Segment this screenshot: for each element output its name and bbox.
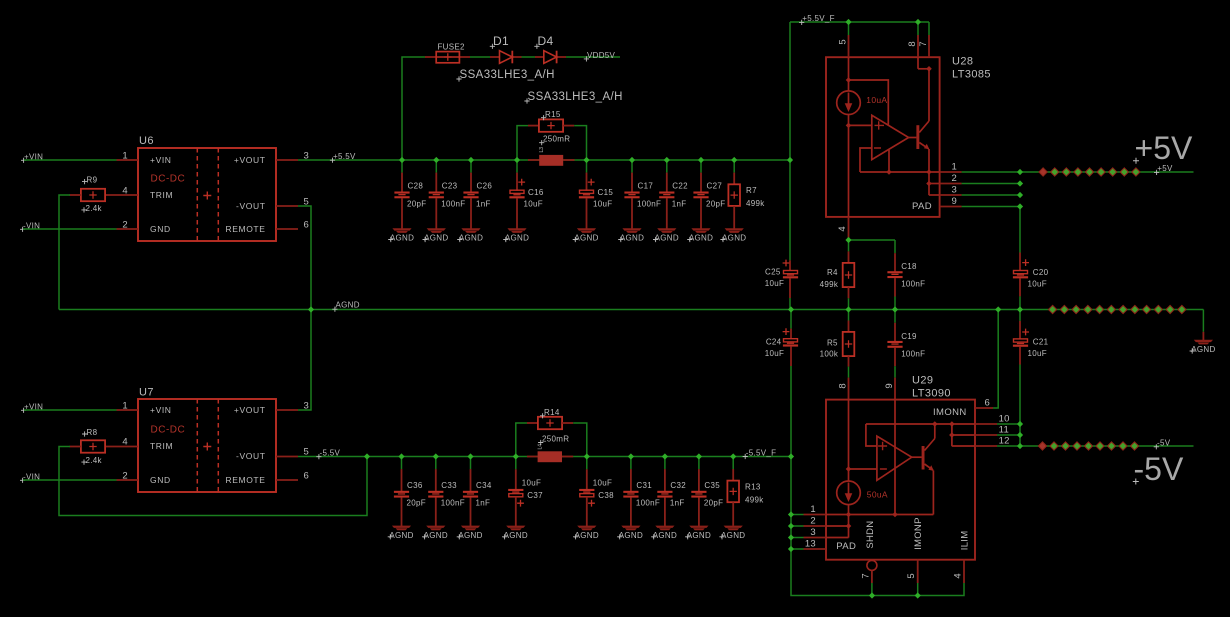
svg-text:AGND: AGND (336, 301, 360, 310)
svg-text:+5.5V_F: +5.5V_F (802, 14, 835, 23)
svg-text:R9: R9 (87, 176, 98, 185)
svg-text:+5.5V: +5.5V (333, 152, 356, 161)
svg-text:PAD: PAD (912, 201, 932, 212)
U28 current source 10uA (848, 57, 850, 91)
junction dots +5V/-5V bus x=1020 (1017, 169, 1023, 175)
svg-text:100nF: 100nF (901, 349, 925, 358)
svg-text:100nF: 100nF (636, 499, 660, 508)
svg-text:C25: C25 (765, 267, 781, 276)
svg-text:C19: C19 (901, 332, 917, 341)
vias -5V output row (1038, 442, 1046, 450)
svg-text:C17: C17 (638, 182, 654, 191)
svg-text:1: 1 (952, 162, 958, 173)
svg-text:C26: C26 (477, 182, 493, 191)
svg-text:13: 13 (805, 539, 816, 550)
wire pin 12 to bus (997, 445, 1020, 447)
svg-text:SHDN: SHDN (865, 521, 876, 549)
svg-text:GND: GND (150, 224, 171, 234)
U29 + input loop to IMONN line (866, 424, 877, 446)
svg-text:VDD5V: VDD5V (587, 51, 616, 60)
U29 pin 9 internal line (894, 400, 896, 515)
capacitor C28 (401, 160, 403, 173)
svg-text:SSA33LHE3_A/H: SSA33LHE3_A/H (460, 69, 555, 81)
U28 internal pins 2/3 chain (928, 172, 930, 195)
svg-text:GND: GND (150, 475, 171, 485)
svg-text:12: 12 (999, 436, 1010, 447)
svg-text:4: 4 (122, 186, 128, 197)
U28 pin 3 stub (940, 194, 962, 196)
ferrite bead L3 (528, 159, 539, 161)
wire AGND tail to symbol (1202, 310, 1204, 332)
svg-text:100nF: 100nF (441, 499, 465, 508)
svg-text:499k: 499k (745, 495, 764, 504)
svg-text:REMOTE: REMOTE (226, 475, 266, 485)
wire +5V output (1020, 171, 1194, 173)
svg-text:C32: C32 (670, 481, 686, 490)
wire R15 left loop (517, 126, 528, 160)
svg-text:AGND: AGND (1191, 345, 1215, 354)
wire +5.5V_F riser x=790 (789, 22, 791, 160)
svg-text:2: 2 (122, 220, 128, 231)
wire -VIN to U6 pin 2 (23, 228, 117, 230)
svg-text:AGND: AGND (655, 234, 679, 243)
U29 current source 50uA (837, 481, 861, 505)
svg-text:6: 6 (985, 398, 991, 409)
resistor R5 (848, 310, 850, 321)
wire +VIN to U6 pin 1 (24, 159, 117, 161)
svg-text:AGND: AGND (722, 234, 746, 243)
ground AGND (right) (1194, 340, 1213, 342)
capacitor C33 (435, 457, 437, 470)
svg-text:1: 1 (122, 151, 128, 162)
U28 pin 8 (917, 22, 919, 35)
U28 pins 8/7 internal tie (917, 57, 919, 69)
svg-text:DC-DC: DC-DC (151, 425, 186, 436)
svg-text:U7: U7 (139, 387, 154, 399)
svg-text:AGND: AGND (620, 234, 644, 243)
capacitor C26 (470, 160, 472, 173)
resistor R15 (539, 119, 563, 131)
svg-text:9: 9 (884, 383, 895, 388)
svg-text:50uA: 50uA (867, 489, 888, 499)
svg-text:AGND: AGND (390, 234, 414, 243)
svg-text:10: 10 (999, 414, 1010, 425)
U28 pin 5 (IN) (848, 22, 850, 35)
svg-text:PAD: PAD (836, 541, 856, 552)
capacitor C24 (790, 310, 792, 329)
svg-text:C34: C34 (476, 481, 492, 490)
svg-text:+VIN: +VIN (150, 405, 172, 415)
resistor R7 (733, 160, 735, 173)
wire R8 TRIM loop (U7) (59, 447, 367, 516)
svg-text:D4: D4 (538, 34, 554, 48)
svg-text:DC-DC: DC-DC (151, 174, 186, 185)
svg-text:AGND: AGND (689, 234, 713, 243)
capacitor C31 (630, 457, 632, 470)
svg-text:R4: R4 (827, 268, 838, 277)
svg-text:L3: L3 (539, 147, 545, 153)
wire +VIN to U7 pin 1 (24, 409, 117, 411)
wire U29 pin 6 to AGND bus (993, 310, 998, 409)
svg-text:U29: U29 (912, 375, 933, 387)
svg-text:3: 3 (952, 185, 958, 196)
wire riser to fuse (402, 57, 425, 160)
capacitor C36 (401, 457, 403, 470)
U28 feedback loop to - input (860, 148, 872, 172)
U6 pin 1 +VIN stub (117, 159, 139, 161)
svg-text:250mR: 250mR (542, 434, 569, 443)
svg-text:C15: C15 (598, 188, 614, 197)
capacitor C22 (666, 160, 668, 173)
diode D1 (500, 51, 513, 64)
wire pin 10 to bus (997, 423, 1020, 425)
svg-text:1: 1 (122, 401, 128, 412)
wire -5V output (1020, 445, 1194, 447)
U7 pin 2 GND stub (117, 479, 139, 481)
svg-text:10uF: 10uF (593, 479, 612, 488)
svg-text:5: 5 (906, 573, 917, 578)
svg-text:C38: C38 (598, 491, 614, 500)
wire U28 pin 1 to +5V bus (962, 171, 1020, 173)
U28 pin 4 stub (848, 217, 850, 239)
svg-text:11: 11 (999, 425, 1009, 436)
svg-text:20pF: 20pF (704, 499, 723, 508)
svg-text:+VOUT: +VOUT (234, 405, 266, 415)
capacitor C18 (894, 253, 896, 271)
svg-text:D1: D1 (493, 34, 509, 48)
capacitor C23 (435, 160, 437, 173)
svg-text:C24: C24 (766, 337, 782, 346)
U6 pin 4 TRIM stub (105, 194, 138, 196)
svg-text:+VIN: +VIN (150, 155, 172, 165)
transistor Q internal U28 (916, 125, 919, 149)
U28 pin 7 (928, 22, 930, 35)
svg-text:C23: C23 (442, 182, 458, 191)
op-amp regulator U28 LT3085 body (826, 57, 940, 217)
svg-text:AGND: AGND (721, 531, 745, 540)
svg-text:5: 5 (838, 39, 849, 44)
U29 internal bottom wire (826, 514, 933, 516)
U29 pin 7 SHDN inverted stub (867, 560, 877, 570)
U29 op-amp - input wire (849, 468, 877, 470)
capacitor C17 (631, 160, 633, 173)
wire R9 to AGND bus (TRIM loop U6) (59, 195, 70, 310)
svg-text:6: 6 (304, 220, 310, 231)
resistor R8 (81, 440, 105, 452)
U28 internal junction (emitter/output) (926, 169, 932, 175)
resistor R4 (848, 240, 850, 251)
wire U28 pin 3 to bus (962, 194, 1020, 196)
svg-text:10uF: 10uF (524, 199, 543, 208)
svg-text:8: 8 (838, 383, 849, 388)
U28 internal node to pin 4 (848, 115, 850, 217)
svg-text:2.4k: 2.4k (86, 456, 103, 465)
capacitor C34 (470, 457, 472, 470)
resistor R13 (732, 457, 734, 470)
U29 pin 2 stub (791, 525, 804, 527)
svg-text:AGND: AGND (505, 234, 529, 243)
capacitor C35 (698, 457, 700, 470)
U7 pin 5 -VOUT stub (276, 456, 298, 458)
svg-text:-5.5V: -5.5V (320, 449, 341, 458)
svg-text:1nF: 1nF (672, 199, 687, 208)
U28 op-amp supply line (849, 80, 889, 125)
vias +5V output row (1039, 168, 1047, 176)
svg-text:10uF: 10uF (765, 349, 784, 358)
svg-text:7: 7 (861, 573, 872, 578)
svg-text:20pF: 20pF (706, 199, 725, 208)
svg-text:L4: L4 (538, 444, 544, 450)
svg-text:TRIM: TRIM (150, 190, 173, 200)
svg-text:LT3085: LT3085 (952, 69, 991, 81)
svg-text:C35: C35 (704, 481, 720, 490)
U29 pin 4 ILIM stub (963, 560, 965, 583)
wire U28 pin 2 to bus (962, 183, 1020, 185)
svg-text:R15: R15 (545, 110, 561, 119)
junction U28 pin 4 node (845, 237, 851, 243)
U29 pin 8 internal line (848, 400, 850, 481)
ferrite bead L4 (527, 456, 538, 458)
svg-text:AGND: AGND (687, 531, 711, 540)
resistor R14 (538, 417, 562, 429)
wire R15 right loop (563, 125, 574, 127)
U29 pin 12 stub (975, 445, 997, 447)
wire pin 11 to bus (997, 434, 1020, 436)
svg-text:R13: R13 (745, 482, 761, 491)
svg-text:IMONN: IMONN (933, 407, 967, 418)
capacitor C20 (1019, 207, 1021, 253)
svg-text:C21: C21 (1033, 337, 1049, 346)
svg-text:SSA33LHE3_A/H: SSA33LHE3_A/H (528, 91, 623, 103)
svg-text:2.4k: 2.4k (86, 204, 103, 213)
U29 pin 6 IMONN stub (975, 407, 993, 409)
U6 DC-DC converter body (138, 148, 276, 241)
wire -5.5V rail (298, 456, 791, 458)
svg-text:7: 7 (918, 41, 929, 46)
U29 pin 3 stub (791, 537, 804, 539)
resistor R9 (81, 189, 105, 201)
svg-text:1nF: 1nF (670, 499, 685, 508)
U29 internal junction (- input node) (846, 466, 852, 472)
svg-text:-VOUT: -VOUT (236, 201, 265, 211)
svg-text:IMONP: IMONP (913, 517, 924, 550)
svg-text:AGND: AGND (389, 531, 413, 540)
wire AGND bus (59, 309, 1203, 311)
svg-text:10uF: 10uF (1028, 280, 1047, 289)
svg-text:3: 3 (810, 527, 816, 538)
U28 internal junction (+ input node) (846, 123, 852, 129)
svg-text:C20: C20 (1033, 268, 1049, 277)
svg-text:10uF: 10uF (522, 479, 541, 488)
svg-text:100nF: 100nF (901, 280, 925, 289)
op-amp regulator U29 LT3090 body (826, 400, 975, 560)
svg-text:100k: 100k (820, 349, 839, 358)
svg-text:C37: C37 (527, 491, 543, 500)
svg-text:100nF: 100nF (441, 199, 465, 208)
U29 pin 8 stub (top) (848, 378, 850, 400)
capacitor C15 (586, 160, 588, 173)
capacitor C32 (664, 457, 666, 470)
svg-text:1nF: 1nF (476, 199, 491, 208)
wire U28 pin 9 to bus (962, 206, 1020, 208)
svg-text:4: 4 (837, 226, 848, 231)
svg-text:+5V: +5V (1135, 130, 1193, 166)
svg-text:2: 2 (952, 173, 958, 184)
U7 pin 4 TRIM stub (105, 446, 138, 448)
svg-text:AGND: AGND (458, 531, 482, 540)
capacitor C21 (1019, 310, 1021, 321)
vias AGND bus row (1049, 305, 1057, 313)
U28 op-amp output tap (888, 150, 890, 172)
op-amp U29 triangle (877, 436, 912, 480)
svg-text:9: 9 (952, 196, 958, 207)
svg-text:20pF: 20pF (407, 499, 426, 508)
svg-text:C27: C27 (707, 182, 723, 191)
U6 pin 3 +VOUT stub (276, 159, 298, 161)
U29 internal junction (collector tap) (932, 421, 938, 427)
U7 pin 1 +VIN stub (117, 409, 139, 411)
svg-text:250mR: 250mR (543, 135, 570, 144)
U28 op-amp + input wire (849, 124, 872, 126)
svg-text:20pF: 20pF (407, 199, 426, 208)
svg-text:2: 2 (122, 471, 128, 482)
capacitor C16 (516, 160, 518, 173)
U29 pin 9 stub (top) (894, 378, 896, 400)
wire U28 pin4 to R4/C18 (849, 239, 896, 241)
svg-text:499k: 499k (746, 199, 765, 208)
capacitor C38 (586, 457, 588, 470)
wire U29 bottom bus (791, 457, 964, 596)
svg-text:R8: R8 (87, 428, 98, 437)
svg-text:AGND: AGND (504, 531, 528, 540)
wire U6 pin5 to AGND bus (298, 206, 311, 310)
U6 pin 6 REMOTE stub (276, 228, 298, 230)
U28 internal junction (V+ tap) (846, 77, 852, 83)
fuse FUSE2 (436, 52, 459, 63)
svg-text:1nF: 1nF (476, 499, 491, 508)
wire R14 left loop (516, 423, 527, 457)
svg-text:U6: U6 (139, 135, 154, 147)
svg-text:-5V: -5V (1134, 451, 1184, 487)
U29 internal IMONN/output line (866, 423, 975, 425)
svg-text:4: 4 (953, 573, 964, 578)
wire +5.5V rail (298, 159, 790, 161)
U6 pin 5 -VOUT stub (276, 205, 298, 207)
capacitor C37 (515, 457, 517, 470)
transistor Q internal U29 (922, 446, 925, 470)
diode D4 (544, 51, 557, 64)
svg-text:8: 8 (907, 41, 918, 46)
capacitor C19 (894, 310, 896, 323)
U29 pin 13 PAD stub (791, 548, 804, 550)
junction dots +5.5V_F top wire (845, 19, 851, 25)
svg-text:C33: C33 (441, 481, 457, 490)
wire U7 pin3 to AGND bus (298, 310, 311, 411)
U6 pin 2 GND stub (117, 228, 139, 230)
svg-text:C28: C28 (408, 182, 424, 191)
svg-text:C18: C18 (901, 262, 917, 271)
svg-text:AGND: AGND (574, 234, 598, 243)
svg-text:AGND: AGND (424, 531, 448, 540)
U28 pin 2 stub (940, 183, 962, 185)
junction dots U29 bottom bus (869, 592, 875, 598)
svg-text:-5V: -5V (1157, 439, 1171, 448)
U28 internal output wire (860, 171, 940, 173)
svg-text:+VOUT: +VOUT (234, 155, 266, 165)
svg-text:C16: C16 (528, 188, 544, 197)
svg-text:6: 6 (304, 471, 310, 482)
wire +5.5V_F top (790, 21, 929, 23)
junction dots left bus x=791 (788, 453, 794, 459)
svg-text:-VOUT: -VOUT (236, 451, 265, 461)
svg-text:FUSE2: FUSE2 (438, 42, 466, 51)
op-amp U28 triangle (872, 115, 909, 159)
svg-text:499k: 499k (820, 280, 839, 289)
svg-text:10uA: 10uA (866, 95, 887, 105)
svg-text:R14: R14 (544, 408, 560, 417)
svg-text:C31: C31 (636, 481, 652, 490)
svg-text:ILIM: ILIM (959, 531, 970, 551)
svg-text:10uF: 10uF (765, 279, 784, 288)
svg-text:C36: C36 (407, 481, 423, 490)
svg-text:AGND: AGND (619, 531, 643, 540)
U28 pin 9 PAD stub (940, 206, 962, 208)
U29 internal pins 11/12 chain (949, 421, 955, 427)
wire fuse-diode segments (425, 56, 436, 58)
U7 pin 6 REMOTE stub (276, 479, 298, 481)
svg-text:-5.5V_F: -5.5V_F (746, 448, 777, 457)
svg-text:AGND: AGND (575, 531, 599, 540)
svg-text:TRIM: TRIM (150, 441, 173, 451)
U29 pin 11 stub (975, 434, 997, 436)
svg-text:4: 4 (122, 437, 128, 448)
svg-text:C22: C22 (672, 182, 688, 191)
capacitor C27 (700, 160, 702, 173)
U29 pin 10 stub (975, 423, 997, 425)
svg-text:10uF: 10uF (593, 199, 612, 208)
svg-text:REMOTE: REMOTE (226, 224, 266, 234)
svg-text:AGND: AGND (459, 234, 483, 243)
junction dots AGND bus (308, 306, 314, 312)
svg-text:100nF: 100nF (637, 199, 661, 208)
svg-text:U28: U28 (952, 56, 973, 68)
svg-text:10uF: 10uF (1028, 349, 1047, 358)
U29 internal pins 2/3 chain (848, 515, 850, 538)
U29 pin 1 stub (791, 514, 804, 516)
U28 pin 1 stub (940, 171, 962, 173)
U7 pin 3 +VOUT stub (276, 409, 298, 411)
svg-text:AGND: AGND (424, 234, 448, 243)
U29 pin 5 IMONP stub (917, 560, 919, 583)
svg-text:AGND: AGND (653, 531, 677, 540)
junction dots +5.5V rail (399, 157, 405, 163)
wire R14 right loop (562, 422, 573, 424)
junction dots -5.5V rail (364, 453, 370, 459)
svg-text:LT3090: LT3090 (912, 388, 951, 400)
svg-text:1: 1 (810, 504, 816, 515)
svg-text:2: 2 (810, 516, 816, 527)
capacitor C25 (789, 160, 791, 260)
svg-text:R7: R7 (746, 186, 757, 195)
wire -VIN to U7 pin 2 (23, 479, 117, 481)
U7 DC-DC converter body (138, 399, 276, 492)
svg-text:R5: R5 (827, 338, 838, 347)
